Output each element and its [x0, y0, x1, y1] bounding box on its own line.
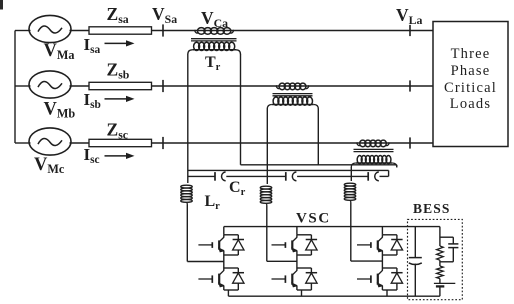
capacitor Cr1	[215, 172, 226, 181]
wire Tr1 left terminal down	[187, 54, 189, 183]
label V_Sa	[152, 4, 177, 26]
IGBT Q1 with diode D1	[198, 235, 244, 255]
neutral bus wire	[14, 31, 16, 144]
transformer Tr3 primary winding	[357, 140, 390, 147]
wire Tr3 left terminal down	[350, 167, 352, 181]
BESS RC loop	[440, 237, 459, 262]
node tick V_La	[409, 25, 411, 36]
wire Tr2 left terminal down	[266, 109, 268, 185]
VSC dc bottom rail	[228, 295, 440, 297]
wire leg 1 bottom exit	[227, 290, 229, 296]
node tick V_Lb	[409, 80, 411, 91]
wire Tr1 right terminal down	[240, 54, 242, 165]
svg-text:Lr: Lr	[205, 193, 221, 212]
impedance Z_sc	[89, 139, 152, 146]
capacitor Cr3	[368, 172, 379, 181]
BESS wire R1 to R2	[439, 260, 441, 266]
label VSC	[296, 211, 331, 227]
battery E	[434, 283, 455, 296]
wire cap row segment 3	[297, 175, 368, 177]
node tick V_Sc	[162, 137, 164, 149]
current arrow I_sb	[84, 90, 135, 111]
svg-text:Isb: Isb	[84, 90, 101, 111]
transformer Tr3 core	[354, 149, 394, 151]
resistor R1	[437, 246, 444, 260]
transformer Tr1 secondary winding	[188, 42, 241, 54]
resistor R2	[437, 266, 444, 279]
transformer Tr1 primary winding	[195, 28, 234, 35]
wire to load phase a	[233, 30, 433, 32]
wire rail hook	[388, 170, 390, 176]
wire cap row segment 4	[380, 175, 389, 177]
svg-text:VLa: VLa	[396, 5, 423, 27]
label three phase critical loads	[444, 46, 497, 112]
IGBT Q4 with diode D4	[272, 268, 318, 290]
wire Z_sb to line	[152, 85, 278, 87]
voltage source V_Mc	[29, 128, 71, 155]
svg-text:Zsc: Zsc	[107, 120, 129, 142]
svg-text:VSC: VSC	[296, 211, 331, 227]
label Z_sb	[107, 60, 130, 82]
svg-text:BESS: BESS	[413, 201, 450, 216]
node tick V_Lc	[409, 137, 411, 148]
wire leg 3 bottom exit	[386, 290, 388, 296]
svg-text:VSa: VSa	[152, 4, 177, 26]
current arrow I_sa	[84, 35, 135, 56]
transformer Tr2 secondary winding	[267, 97, 318, 109]
wire Lr2 to VSC midpoint	[267, 206, 297, 262]
wire leg 2 bottom exit	[301, 290, 303, 296]
node tick V_Sb	[162, 80, 164, 92]
svg-text:Phase: Phase	[451, 63, 491, 79]
label V_La	[396, 5, 423, 27]
svg-text:VMb: VMb	[44, 100, 76, 121]
inductor Lr3	[344, 183, 356, 203]
three phase critical loads box	[433, 22, 508, 147]
BESS wire R2 to battery	[439, 279, 441, 284]
wire to load phase c	[388, 142, 433, 144]
BESS dashed box	[408, 219, 463, 299]
svg-text:Isa: Isa	[84, 35, 101, 56]
svg-text:Tr: Tr	[205, 54, 221, 73]
wire secondary bus	[241, 164, 397, 166]
voltage source V_Ma	[29, 15, 71, 42]
capacitor Cr2	[286, 172, 297, 181]
label V_Ca	[201, 8, 228, 30]
wire Z_sc to line	[152, 142, 358, 144]
svg-text:Three: Three	[451, 46, 491, 62]
BESS capacitor branch	[409, 227, 422, 297]
wire source a to Z_sa	[70, 30, 90, 32]
wire bus to source c	[15, 142, 31, 144]
label Cr	[229, 179, 246, 198]
wire source c to Z_sc	[70, 142, 90, 144]
transformer Tr3 secondary winding	[351, 156, 397, 168]
svg-text:Zsa: Zsa	[107, 4, 129, 26]
label Lr	[205, 193, 221, 212]
BESS main branch top wire	[439, 227, 441, 246]
wire bus to source a	[15, 30, 31, 32]
svg-text:VMa: VMa	[44, 41, 75, 62]
wire filter rail	[188, 169, 389, 171]
wire leg 3 top stub	[381, 227, 383, 235]
label V_Mc	[34, 155, 65, 176]
node tick V_Sa	[162, 24, 164, 36]
inductor Lr2	[260, 186, 272, 206]
impedance Z_sb	[89, 82, 152, 89]
wire to load phase b	[308, 85, 433, 87]
label Tr	[205, 54, 221, 73]
wire leg 2 midpoint	[296, 255, 298, 268]
svg-text:Loads: Loads	[450, 96, 491, 112]
wire Tr3 right terminal down	[396, 165, 398, 167]
svg-text:VMc: VMc	[34, 155, 65, 176]
wire Tr2 right terminal down	[317, 109, 319, 165]
IGBT Q3 with diode D3	[272, 235, 318, 255]
svg-text:Zsb: Zsb	[107, 60, 130, 82]
transformer Tr2 primary winding	[276, 83, 309, 90]
label Z_sc	[107, 120, 129, 142]
wire Lr1 to VSC midpoint	[187, 205, 224, 262]
wire bus to source b	[15, 85, 31, 87]
wire leg 1 top stub	[223, 227, 225, 235]
scan artifact mark	[0, 0, 3, 10]
wire leg 1 midpoint	[223, 255, 225, 268]
svg-text:Isc: Isc	[84, 145, 100, 166]
IGBT Q2 with diode D2	[198, 268, 244, 290]
transformer Tr1 core	[191, 39, 237, 41]
IGBT Q6 with diode D6	[357, 268, 403, 290]
label BESS	[413, 201, 450, 216]
voltage source V_Mb	[29, 71, 71, 98]
impedance Z_sa	[89, 27, 152, 34]
inductor Lr1	[181, 185, 193, 205]
wire leg 3 midpoint	[381, 255, 383, 268]
label V_Ma	[44, 41, 75, 62]
wire cap row segment 1	[188, 175, 215, 177]
wire cap row segment 2	[226, 175, 285, 177]
VSC dc top rail	[224, 226, 440, 228]
svg-text:Cr: Cr	[229, 179, 246, 198]
svg-text:Critical: Critical	[444, 80, 497, 96]
IGBT Q5 with diode D5	[357, 235, 403, 255]
wire source b to Z_sb	[70, 85, 90, 87]
transformer Tr2 core	[273, 94, 313, 96]
wire leg 2 top stub	[296, 227, 298, 235]
current arrow I_sc	[84, 145, 135, 166]
wire Z_sa to line	[152, 30, 196, 32]
svg-text:VCa: VCa	[201, 8, 228, 30]
label V_Mb	[44, 100, 76, 121]
label Z_sa	[107, 4, 129, 26]
wire Lr3 to VSC midpoint	[351, 203, 383, 262]
